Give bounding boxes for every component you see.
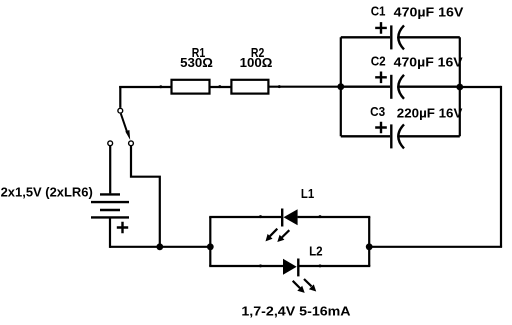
wire right bus to right edge <box>460 86 501 88</box>
wire bendpoint bump <box>319 215 322 218</box>
wire bottom rail right <box>369 246 502 248</box>
capacitor right bus <box>459 37 461 136</box>
wire battery bottom drop <box>109 218 111 248</box>
svg-text:470µF 16V: 470µF 16V <box>394 5 464 19</box>
wire bendpoint bump <box>278 85 281 88</box>
node junction dot right bus <box>456 84 463 91</box>
wire bendpoint bump <box>259 215 262 218</box>
wire switch top drop <box>119 86 121 108</box>
wire LED box left edge <box>209 217 211 266</box>
resistor R1 <box>172 80 210 94</box>
wire bottom rail left <box>110 246 210 248</box>
capacitor C1 <box>341 22 460 49</box>
svg-text:100Ω: 100Ω <box>240 56 273 70</box>
svg-text:C3: C3 <box>370 105 385 119</box>
svg-text:L1: L1 <box>301 187 314 201</box>
wire top horizontal from switch to R1 <box>119 86 171 88</box>
wire battery top to switch left contact <box>109 146 111 193</box>
node junction dot switch branch on rail <box>156 243 163 250</box>
svg-text:530Ω: 530Ω <box>180 56 213 70</box>
wire LED box top (L1 row) <box>209 216 281 218</box>
switch S1 right contact <box>129 141 134 146</box>
wire R2 to capacitor left bus <box>269 86 342 88</box>
switch S1 top contact <box>118 108 123 113</box>
LED L2 <box>283 259 297 275</box>
wire bendpoint bump <box>159 85 162 88</box>
switch S1 left contact <box>108 141 113 146</box>
svg-text:2x1,5V (2xLR6): 2x1,5V (2xLR6) <box>1 186 93 200</box>
node junction dot left bus <box>337 83 344 90</box>
svg-text:L2: L2 <box>309 244 323 258</box>
svg-text:220µF 16V: 220µF 16V <box>397 107 463 121</box>
wire LED box bottom (L2 row) <box>209 265 283 267</box>
node junction dot LED box left <box>207 243 214 250</box>
wire LED box right edge <box>368 217 370 266</box>
wire bendpoint bump <box>259 264 262 267</box>
LED L1 emission arrows <box>266 229 290 242</box>
wire right edge vertical <box>500 86 502 247</box>
svg-text:1,7-2,4V 5-16mA: 1,7-2,4V 5-16mA <box>241 305 350 319</box>
capacitor left bus <box>340 37 342 136</box>
svg-text:470µF 16V: 470µF 16V <box>394 55 464 69</box>
wire bendpoint bump <box>218 85 221 88</box>
capacitor C3 <box>341 122 460 149</box>
LED L1 <box>281 209 283 227</box>
wire between R1 and R2 <box>210 86 232 88</box>
resistor R2 <box>231 80 268 94</box>
wire switch right contact branch <box>131 146 160 247</box>
capacitor C2 <box>341 72 460 99</box>
switch S1 arm <box>121 114 128 134</box>
wire bendpoint bump <box>319 264 322 267</box>
svg-text:C2: C2 <box>371 54 386 68</box>
battery B1 <box>91 194 129 233</box>
node junction dot LED box right <box>366 243 373 250</box>
LED L2 emission arrows <box>293 279 317 293</box>
svg-text:C1: C1 <box>371 4 386 18</box>
